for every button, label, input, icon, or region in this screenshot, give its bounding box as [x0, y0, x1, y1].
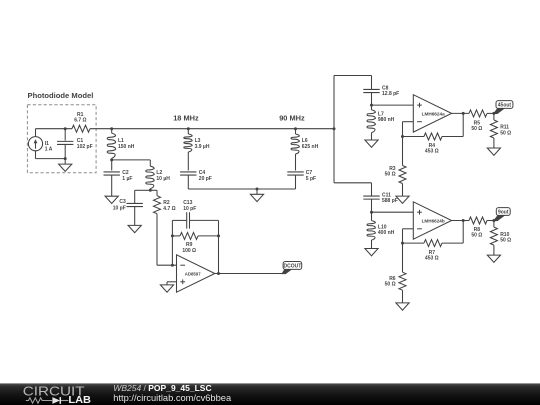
svg-text:50 Ω: 50 Ω	[500, 238, 511, 244]
svg-text:588 pF: 588 pF	[382, 198, 398, 204]
svg-text:6.7 Ω: 6.7 Ω	[74, 117, 86, 123]
svg-text:400 nH: 400 nH	[378, 230, 395, 236]
svg-text:AD8597: AD8597	[185, 272, 201, 277]
svg-text:LMH6624a: LMH6624a	[422, 112, 445, 117]
svg-text:50 Ω: 50 Ω	[500, 130, 511, 136]
svg-text:50 Ω: 50 Ω	[385, 282, 396, 288]
svg-text:90 MHz: 90 MHz	[279, 114, 305, 123]
svg-text:C3: C3	[119, 199, 126, 205]
svg-text:DCOUT: DCOUT	[284, 263, 302, 269]
svg-text:102 pF: 102 pF	[77, 144, 93, 150]
svg-text:http://circuitlab.com/cv6bbea: http://circuitlab.com/cv6bbea	[113, 393, 232, 403]
svg-text:18 MHz: 18 MHz	[173, 114, 199, 123]
svg-text:20 pF: 20 pF	[199, 176, 212, 182]
svg-text:50 Ω: 50 Ω	[385, 172, 396, 178]
svg-text:45out: 45out	[498, 102, 512, 108]
svg-text:12.8 pF: 12.8 pF	[382, 91, 399, 97]
svg-text:WB254 / POP_9_45_LSC: WB254 / POP_9_45_LSC	[113, 383, 211, 393]
svg-text:10 pF: 10 pF	[113, 206, 126, 212]
svg-text:LMH6624b: LMH6624b	[422, 219, 445, 224]
svg-text:980 nH: 980 nH	[378, 117, 395, 123]
svg-text:3.9 µH: 3.9 µH	[195, 144, 210, 150]
svg-text:50 Ω: 50 Ω	[471, 126, 482, 132]
svg-text:453 Ω: 453 Ω	[425, 149, 439, 155]
svg-text:150 nH: 150 nH	[118, 144, 135, 150]
svg-text:625 nH: 625 nH	[302, 144, 319, 150]
svg-text:10 pF: 10 pF	[183, 206, 196, 212]
svg-text:5 pF: 5 pF	[306, 176, 316, 182]
svg-text:9out: 9out	[498, 209, 509, 215]
svg-text:50 Ω: 50 Ω	[471, 233, 482, 239]
svg-text:100 Ω: 100 Ω	[182, 248, 196, 254]
svg-text:1 A: 1 A	[45, 147, 53, 153]
svg-text:Photodiode Model: Photodiode Model	[28, 91, 94, 100]
svg-text:1 µF: 1 µF	[122, 176, 132, 182]
svg-text:LAB: LAB	[68, 395, 91, 405]
svg-text:4.7 Ω: 4.7 Ω	[163, 206, 175, 212]
svg-text:10 µH: 10 µH	[156, 176, 170, 182]
svg-text:453 Ω: 453 Ω	[425, 256, 439, 262]
